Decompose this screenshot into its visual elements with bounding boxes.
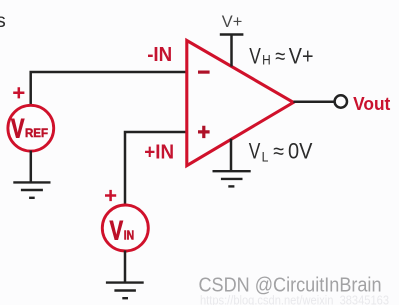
svg-text:V: V [249, 44, 261, 69]
power rail V+ connection [220, 35, 244, 67]
label Vout [353, 93, 390, 114]
svg-text:L: L [262, 149, 269, 165]
svg-text:Vout: Vout [353, 93, 390, 114]
svg-text:-IN: -IN [147, 43, 172, 66]
label VH approx V+ [249, 44, 313, 69]
svg-text:0V: 0V [288, 139, 313, 164]
svg-text:≈: ≈ [275, 44, 285, 69]
polarity + of VREF [13, 87, 24, 98]
svg-text:V: V [249, 139, 261, 164]
op-amp U1 (comparator triangle) [187, 41, 294, 166]
polarity + of VIN [105, 190, 116, 201]
label -IN [147, 43, 172, 66]
text fragment s (cropped word, top-left) [0, 10, 6, 32]
svg-text:V+: V+ [289, 44, 314, 69]
inverting input marker - [198, 70, 210, 73]
label +IN [144, 141, 174, 164]
svg-text:H: H [262, 52, 271, 68]
voltage source VIN [102, 205, 148, 251]
svg-text:V+: V+ [222, 12, 243, 31]
svg-text:V: V [110, 216, 123, 246]
ground at op-amp negative supply [213, 139, 251, 187]
svg-text:≈: ≈ [273, 139, 284, 164]
wire VIN to ground [124, 251, 127, 283]
ground under VIN [106, 283, 144, 299]
svg-text:IN: IN [124, 229, 134, 243]
svg-text:s: s [0, 10, 6, 32]
non-inverting input marker + [198, 126, 210, 138]
svg-text:V: V [11, 114, 24, 144]
svg-text:REF: REF [25, 126, 48, 140]
svg-text:+IN: +IN [144, 141, 174, 164]
wire op-amp output [293, 101, 334, 104]
watermark CSDN user id [199, 274, 390, 305]
wire VREF to ground [30, 151, 33, 182]
ground under VREF [13, 182, 50, 197]
label VL approx 0V [249, 139, 313, 165]
wire VREF to -IN input [31, 72, 187, 106]
output terminal (open circle) [335, 95, 347, 107]
voltage source VREF [8, 105, 54, 151]
svg-text:https://blog.csdn.net/weixin_3: https://blog.csdn.net/weixin_38345163 [200, 294, 389, 305]
power rail V+ label [222, 12, 243, 31]
wire VIN to +IN input [125, 132, 187, 205]
